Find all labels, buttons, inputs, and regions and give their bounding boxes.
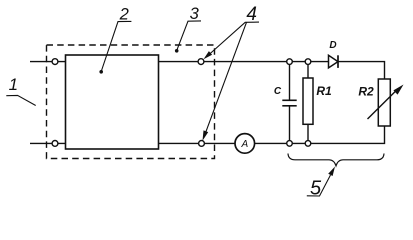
svg-text:1: 1 [9,75,18,94]
svg-text:C: C [274,86,282,97]
ammeter A [235,134,255,154]
resistor R1 body [303,78,313,124]
wire bottom from box to ammeter [159,142,236,144]
brace 5 group [288,154,384,166]
svg-text:3: 3 [190,5,200,23]
svg-text:D: D [329,40,336,51]
label 3 [175,5,201,53]
svg-text:A: A [240,139,248,150]
terminal circle bottom-right [199,141,205,147]
dashed enclosure box 3 [47,45,215,159]
wire R1 branch [307,62,309,78]
svg-text:R2: R2 [358,85,374,99]
label 2 [99,5,131,73]
block box 2 [66,55,159,149]
wire top-left input [30,61,66,63]
wire diode cathode to R2 corner [338,62,385,79]
label 1 [6,75,35,105]
wire bottom-left input [30,142,66,144]
R2 variable arrow [368,85,404,120]
wire capacitor branch [289,62,291,100]
svg-text:R1: R1 [316,84,332,98]
node circle top C [287,59,293,65]
node circle bottom C [287,141,293,147]
svg-text:2: 2 [119,5,129,23]
label 4 [203,4,260,141]
wire bottom from ammeter to R2 [255,126,385,143]
terminal circle top-right [198,59,204,65]
capacitor C1 plates [282,100,296,106]
node circle bottom R1 [305,141,311,147]
terminal circle bottom-left [52,141,58,147]
terminal circle top-left [52,59,58,65]
wire top from box to diode anode [159,61,329,63]
node circle top R1 [305,59,311,65]
resistor R2 body [378,79,390,126]
label 5 [307,167,335,200]
diode D [329,55,339,68]
